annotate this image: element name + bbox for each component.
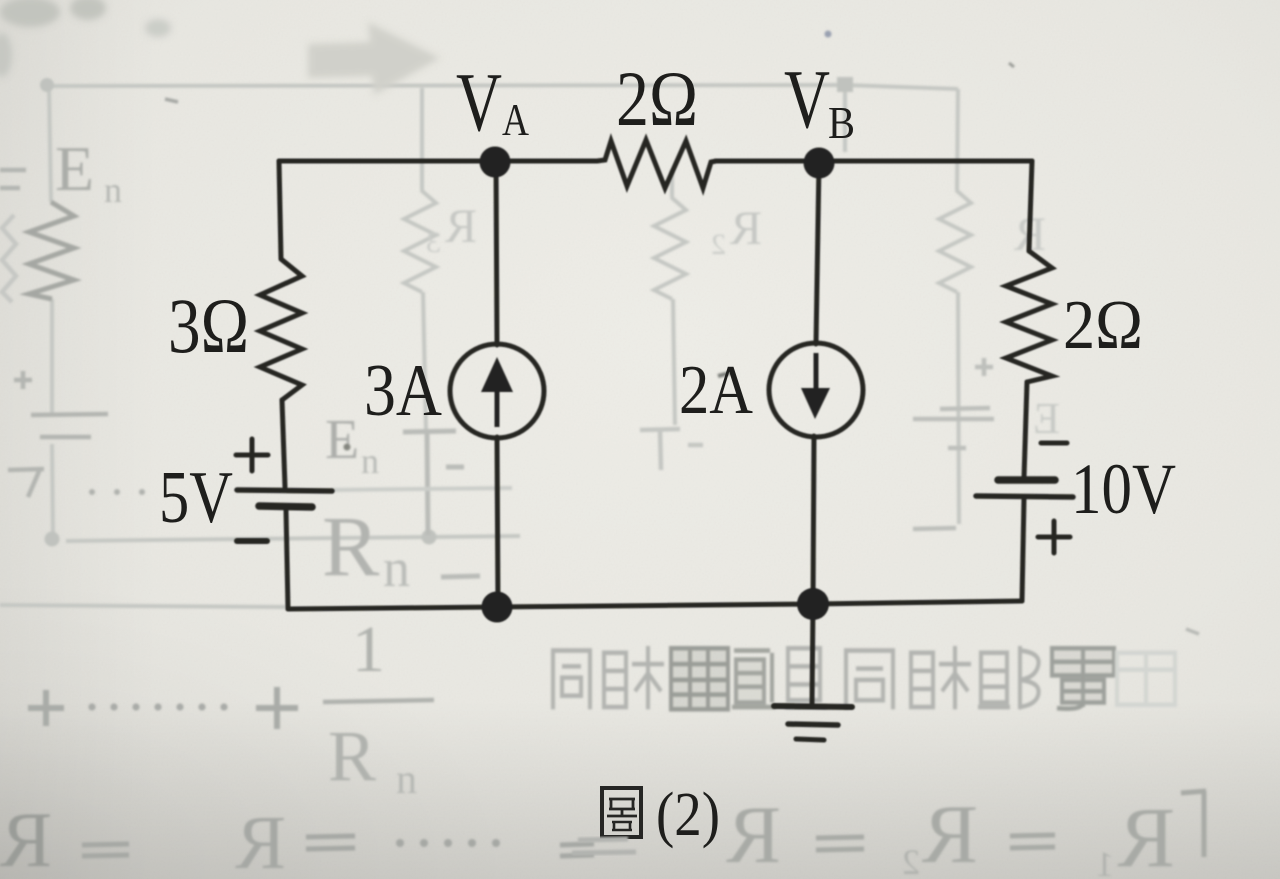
svg-text:(2): (2) [656, 781, 720, 849]
svg-text:2: 2 [711, 228, 726, 261]
svg-text:n: n [361, 441, 379, 481]
svg-text:3: 3 [426, 226, 441, 259]
svg-text:2A: 2A [679, 352, 753, 429]
svg-text:R: R [1117, 789, 1175, 879]
svg-text:1: 1 [1096, 844, 1114, 879]
svg-text:10V: 10V [1071, 449, 1176, 529]
svg-text:E: E [55, 133, 94, 204]
svg-text:2Ω: 2Ω [616, 55, 698, 142]
svg-text:R: R [0, 796, 52, 879]
svg-text:3A: 3A [364, 350, 442, 432]
svg-text:R: R [322, 498, 380, 594]
svg-text:E: E [1033, 394, 1060, 443]
svg-text:R: R [235, 801, 286, 879]
svg-text:3Ω: 3Ω [168, 282, 249, 369]
svg-text:V: V [456, 56, 502, 149]
svg-text:B: B [828, 97, 855, 148]
svg-text:R: R [328, 716, 376, 796]
svg-text:R: R [922, 788, 978, 879]
svg-text:V: V [784, 53, 830, 146]
svg-text:2: 2 [902, 842, 920, 879]
svg-text:n: n [383, 538, 410, 598]
svg-text:R: R [730, 202, 762, 255]
svg-text:E: E [325, 409, 359, 471]
svg-text:A: A [502, 94, 529, 145]
svg-text:R: R [726, 789, 781, 879]
svg-text:5V: 5V [159, 457, 233, 539]
svg-text:2Ω: 2Ω [1063, 287, 1143, 364]
svg-text:n: n [104, 170, 122, 210]
svg-text:R: R [445, 200, 477, 253]
svg-text:1: 1 [352, 613, 385, 686]
svg-text:n: n [396, 757, 417, 803]
